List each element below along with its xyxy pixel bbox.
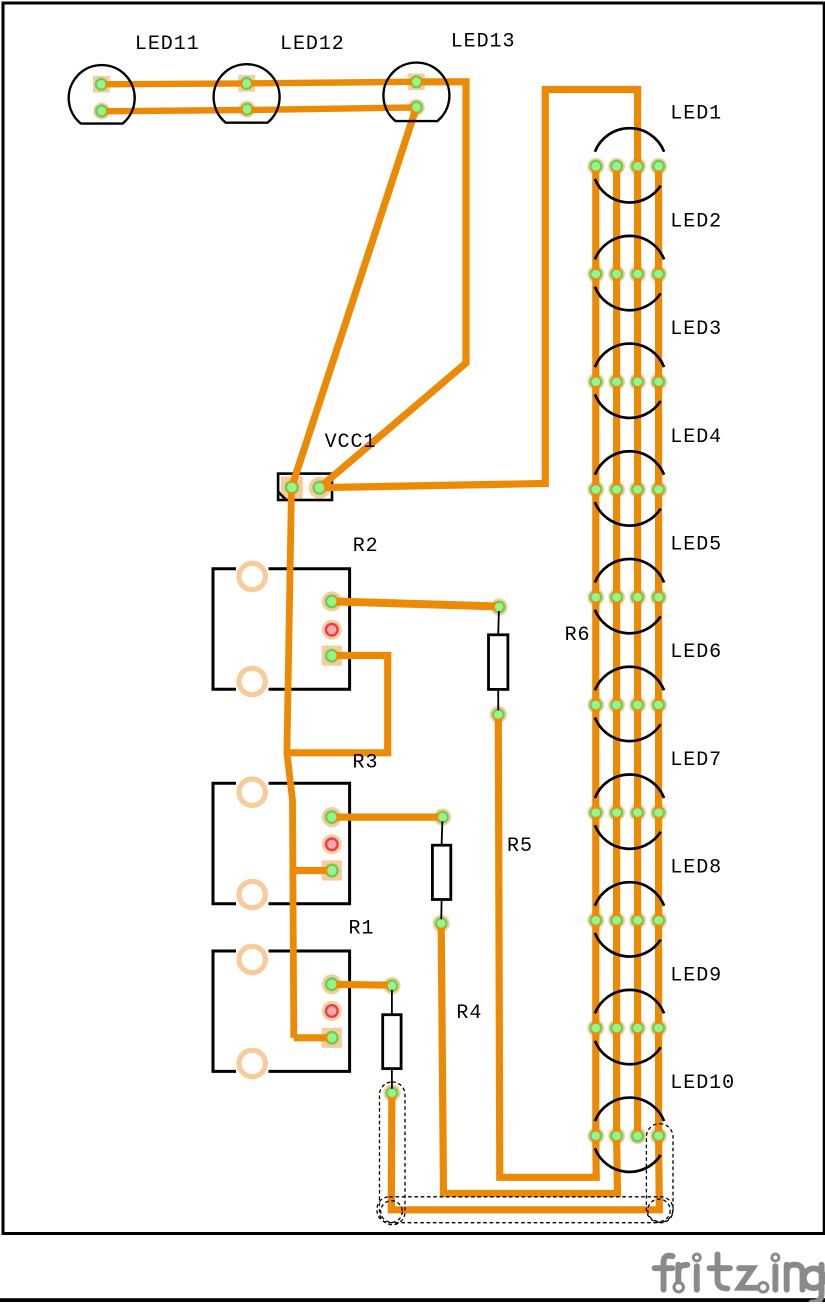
wire: R3 pin1 to R5 <box>332 813 443 820</box>
R2 mounting rings <box>239 563 265 589</box>
wire: LED13 cathode to VCC1 pad1 <box>292 107 417 487</box>
LED7 pads <box>587 804 604 821</box>
resistor R4 body <box>383 1015 401 1069</box>
jumper outline left leg (dashed) <box>380 1082 406 1225</box>
wire: LED column bus 1 <box>592 166 599 1135</box>
jumper outline right leg (dashed) <box>646 1124 673 1223</box>
wire: trunk to R1 pin3 <box>294 1034 330 1041</box>
wire: R2 pin1 to R6 <box>332 601 499 606</box>
LED10 pads <box>587 1127 604 1144</box>
resistor R4 pad centers <box>388 982 396 990</box>
R3 outline <box>213 783 350 903</box>
LED3 pad centers <box>592 377 601 386</box>
LED13 outline <box>383 63 449 122</box>
wire: R4 to LED10 pad4 <box>391 1093 659 1210</box>
resistor R4 pads <box>383 977 400 994</box>
LED13 pads <box>408 74 425 91</box>
wire: R5 to LED10 pad2 <box>441 924 617 1194</box>
VCC1 pad 1 center <box>287 483 297 493</box>
LED11 pads <box>93 76 110 93</box>
resistor R4 leads <box>391 986 393 1015</box>
LED4 pads <box>587 481 604 498</box>
R3 pin pads <box>322 807 342 827</box>
LED3 outline <box>595 344 664 368</box>
LED8 pads <box>587 912 604 929</box>
svg-text:LED11: LED11 <box>135 33 200 56</box>
svg-text:LED8: LED8 <box>670 857 722 880</box>
LED5 outline <box>595 559 664 583</box>
wire: LED11-LED12-LED13 anode bus <box>101 82 416 85</box>
R3 pin pad centers <box>327 813 336 822</box>
fritzing logo <box>655 1254 824 1303</box>
R1 mounting rings <box>239 946 265 972</box>
resistor R5 pad centers <box>438 813 446 821</box>
svg-text:R6: R6 <box>565 624 591 647</box>
wire: trunk to R3 pin3 <box>293 867 332 874</box>
LED11 outline <box>69 65 135 124</box>
R2 pin pad centers <box>327 597 336 606</box>
LED1 outline <box>595 128 664 152</box>
wire: LED13 anode to VCC1 pad2 <box>320 82 466 488</box>
wire: R2 pin3 elbow to trunk <box>287 656 388 753</box>
svg-text:LED10: LED10 <box>670 1072 735 1095</box>
connector VCC1 outline <box>278 474 332 500</box>
svg-text:LED7: LED7 <box>670 749 722 772</box>
LED5 pads <box>587 589 604 606</box>
wire: LED11-LED12-LED13 cathode bus <box>102 107 417 111</box>
resistor R5 leads <box>441 817 444 845</box>
svg-text:R2: R2 <box>353 535 379 558</box>
LED4 pad centers <box>592 485 601 494</box>
R2 pin pads <box>322 591 342 611</box>
LED9 outline <box>595 990 664 1014</box>
LED4 outline <box>595 451 664 475</box>
LED9 pad centers <box>592 1024 601 1033</box>
LED2 pads <box>587 266 604 283</box>
resistor R6 body <box>489 635 508 690</box>
resistor R6 leads <box>497 607 500 635</box>
wire: LED column bus 3 <box>634 166 641 1135</box>
wire: VCC1 pad1 trunk down left side <box>287 488 294 1038</box>
R2 outline <box>213 569 350 689</box>
svg-text:R3: R3 <box>353 751 379 774</box>
LED2 pad centers <box>592 270 601 279</box>
svg-text:LED6: LED6 <box>670 641 722 664</box>
wire: VCC1 pad2 to LED1 pad3 <box>320 90 638 488</box>
LED6 outline <box>595 667 664 691</box>
LED12 outline <box>214 64 280 123</box>
LED8 outline <box>595 882 664 906</box>
resistor R6 pads <box>490 598 507 615</box>
LED2 outline <box>595 236 664 260</box>
LED12 pads <box>238 75 255 92</box>
VCC1 pad 2 (round) <box>309 477 331 499</box>
svg-text:LED13: LED13 <box>451 30 516 53</box>
svg-text:LED9: LED9 <box>670 964 722 987</box>
LED9 pads <box>587 1020 604 1037</box>
jumper hole right (dashed) <box>648 1199 670 1221</box>
svg-text:LED3: LED3 <box>670 318 722 341</box>
svg-text:LED2: LED2 <box>670 210 722 233</box>
VCC1 pad 1 (square) <box>281 477 303 499</box>
LED8 pad centers <box>592 916 601 925</box>
svg-text:R1: R1 <box>349 918 375 941</box>
resistor R6 pad centers <box>495 603 503 611</box>
jumper hole left (dashed) <box>381 1201 403 1223</box>
LED3 pads <box>587 373 604 390</box>
svg-text:R5: R5 <box>507 835 533 858</box>
LED5 pad centers <box>592 593 601 602</box>
resistor R5 pads <box>434 809 451 826</box>
LED13 pad centers <box>412 78 421 87</box>
LED6 pads <box>587 697 604 714</box>
LED7 outline <box>595 774 664 798</box>
svg-text:LED5: LED5 <box>670 533 722 556</box>
LED1 pads <box>587 158 604 175</box>
R1 pin pads <box>322 974 342 994</box>
R1 outline <box>213 951 350 1071</box>
wire: LED column bus 2 <box>613 166 620 1135</box>
LED12 pad centers <box>242 79 251 88</box>
svg-text:LED4: LED4 <box>670 426 722 449</box>
LED10 pad centers <box>592 1131 601 1140</box>
wire: LED column bus 4 <box>655 166 662 1135</box>
wire: R6 to LED10 pad1 <box>498 715 596 1178</box>
R1 pin pad centers <box>327 980 336 989</box>
VCC1 pad 2 center <box>315 483 325 493</box>
jumper outline bottom (dashed) <box>377 1197 673 1223</box>
svg-text:LED12: LED12 <box>280 33 345 56</box>
LED6 pad centers <box>592 701 601 710</box>
R3 mounting rings <box>239 779 265 805</box>
svg-text:LED1: LED1 <box>670 103 722 126</box>
wire: R1 pin1 to R4 <box>330 981 392 989</box>
LED11 pad centers <box>97 80 106 89</box>
LED1 pad centers <box>592 162 601 171</box>
svg-text:R4: R4 <box>456 1002 482 1025</box>
LED7 pad centers <box>592 808 601 817</box>
svg-text:VCC1: VCC1 <box>325 431 377 454</box>
LED10 outline <box>595 1098 664 1122</box>
resistor R5 body <box>432 845 450 899</box>
